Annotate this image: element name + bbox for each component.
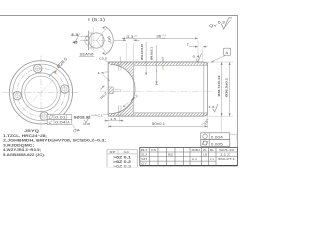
dim 36 line	[122, 37, 198, 39]
svg-text:1:1: 1:1	[210, 158, 215, 161]
svg-text:I: I	[162, 56, 163, 60]
flange outer circle	[9, 61, 72, 124]
bolt hole top	[33, 64, 43, 74]
dim 1.5 line	[105, 120, 124, 122]
svg-text:BZ: BZ	[168, 153, 174, 156]
left flange hatch upper	[108, 62, 133, 80]
svg-text:36: 36	[156, 35, 161, 39]
flange section line 2	[120, 62, 122, 71]
svg-text:2: 2	[187, 43, 189, 47]
svg-text:0.004: 0.004	[211, 136, 223, 140]
svg-text:SEATØ: SEATØ	[80, 53, 95, 57]
cylindricity frame	[201, 140, 230, 147]
detail groove left wall	[88, 31, 90, 50]
detail groove second wall	[90, 33, 92, 48]
svg-text:LB: LB	[203, 153, 207, 156]
svg-text:>6Z 0.1: >6Z 0.1	[113, 156, 131, 160]
flange section line 1	[117, 62, 119, 71]
tolerance frame leader	[73, 124, 78, 130]
detail vertical centerline	[93, 28, 95, 54]
svg-text:Ø38.74±0.02: Ø38.74±0.02	[217, 75, 221, 97]
svg-text:0.01: 0.01	[55, 116, 66, 120]
svg-text:Ø36.5±0.1: Ø36.5±0.1	[225, 77, 229, 97]
svg-text:0.005: 0.005	[211, 142, 223, 146]
perpendicularity tolerance frame row2	[47, 120, 72, 125]
flange bore circle inner	[25, 76, 57, 108]
flange diagonal centerline	[17, 80, 54, 117]
svg-text:SK5-10: SK5-10	[219, 148, 234, 152]
left bore hole bottom	[108, 93, 113, 95]
detail 90 deg ray lower	[97, 41, 107, 54]
svg-text:360-ZT-1: 360-ZT-1	[218, 157, 236, 161]
sheet border right	[236, 16, 238, 167]
sheet background	[0, 0, 240, 180]
dim 1.5 bottom left ext	[107, 117, 109, 128]
dia 31.15 dim line	[145, 42, 147, 75]
detail dim slash	[75, 34, 80, 44]
right end face line	[203, 62, 205, 116]
leader arrowhead (orange)	[54, 69, 57, 74]
svg-text:50±0.1: 50±0.1	[152, 122, 165, 126]
svg-text:I (5:1): I (5:1)	[88, 17, 106, 22]
svg-text:3.RJDDQMC;: 3.RJDDQMC;	[3, 143, 34, 147]
dim 3.3 ext lines	[125, 43, 127, 64]
section centerline	[100, 90, 213, 92]
svg-text:JDBJ: JDBJ	[191, 149, 201, 152]
bolt hole left	[12, 91, 22, 101]
svg-text:Ø9.6±0.1: Ø9.6±0.1	[150, 47, 154, 60]
sheet border top	[0, 15, 238, 17]
roughness check symbol	[221, 18, 232, 29]
left R0.2 label (blue)	[101, 86, 105, 90]
flatness tolerance frame row1	[47, 115, 98, 120]
section outer rectangle	[108, 62, 204, 116]
left bore hole top	[108, 86, 113, 88]
svg-text:1.TZCL, HRC24~28;: 1.TZCL, HRC24~28;	[3, 134, 47, 138]
dim 2 ext lines	[202, 47, 204, 62]
svg-text:JSYQ: JSYQ	[24, 129, 39, 133]
bottom wall hatch band	[108, 113, 207, 116]
svg-text:>6Z 0.3: >6Z 0.3	[113, 164, 131, 168]
dim 50 line	[207, 117, 209, 128]
wall joint mark	[162, 57, 164, 62]
svg-text:Ø31.15±0.05: Ø31.15±0.05	[140, 44, 144, 60]
svg-text:RP: RP	[110, 150, 116, 154]
detail left bulge arc	[85, 36, 89, 46]
detail 90 deg ray upper	[97, 28, 107, 41]
flange centerline vertical	[40, 56, 42, 130]
svg-text:5.AGB3608-822 (JC).: 5.AGB3608-822 (JC).	[3, 153, 45, 157]
svg-text:C0.5: C0.5	[99, 57, 107, 61]
detail ball circle	[89, 33, 104, 48]
svg-text:1:1 Z: 1:1 Z	[220, 153, 231, 157]
svg-text:3.3: 3.3	[71, 33, 78, 37]
svg-text:GC: GC	[124, 150, 130, 154]
detail leader upper	[80, 36, 88, 38]
flange second circle	[13, 64, 69, 120]
svg-text:C1: C1	[98, 114, 103, 118]
detail angle dimension arc	[105, 26, 113, 55]
title block texts	[141, 149, 215, 166]
datum box A	[224, 48, 231, 55]
svg-text:2.JGHBMDH, BMYD≥HV708, SCSD0.2: 2.JGHBMDH, BMYD≥HV708, SCSD0.2~0.3;	[3, 139, 106, 143]
svg-text:4.WZYJR3.3~R3.5;: 4.WZYJR3.3~R3.5;	[3, 148, 41, 152]
detail bottom chord	[89, 47, 94, 49]
dim 2 line	[189, 46, 198, 48]
bore top line	[134, 64, 208, 66]
flange centerline horizontal	[2, 91, 79, 93]
svg-text:0.8: 0.8	[83, 122, 90, 126]
top wall hatch band	[108, 62, 207, 65]
dia 38.74 dim line	[221, 62, 223, 116]
svg-text:0.04: 0.04	[55, 121, 66, 125]
bore counterbore step	[113, 87, 115, 94]
circularity frame	[201, 133, 237, 140]
dim 3.3 line and arrows	[114, 39, 126, 41]
svg-text:1.5: 1.5	[110, 117, 117, 121]
flange bore circle outer	[22, 73, 61, 112]
bolt hole bottom	[39, 111, 49, 121]
svg-text:1.6: 1.6	[209, 105, 216, 109]
right dims ext lines	[205, 61, 233, 63]
right end chamfered corner top	[204, 62, 208, 116]
svg-text:GY: GY	[141, 163, 148, 166]
left flange hatch lower	[108, 97, 133, 116]
svg-text:CS: CS	[151, 149, 156, 152]
detail top chord	[89, 32, 94, 34]
bolt hole right	[60, 84, 70, 94]
bore bottom line	[134, 112, 208, 114]
detail leader lower	[80, 39, 88, 41]
svg-text:SH: SH	[141, 158, 147, 161]
dim 36 right ext line	[197, 40, 199, 62]
svg-text:2.1: 2.1	[192, 158, 198, 161]
svg-text:0.4: 0.4	[193, 55, 201, 59]
left wall hatch strip	[108, 87, 113, 93]
detail ball chord	[102, 34, 104, 47]
dia 9.6 dim line	[156, 45, 158, 84]
svg-text:A: A	[226, 50, 229, 55]
bolt hole dimension leader (blue)	[49, 71, 55, 77]
flange bolt circle (dash-dot)	[17, 68, 65, 116]
leader from dia dim to tolerance frames	[221, 116, 223, 133]
detail horizontal centerline	[84, 39, 107, 41]
spherical cavity arc	[111, 65, 135, 114]
dia 36.5 dim line	[229, 62, 231, 116]
